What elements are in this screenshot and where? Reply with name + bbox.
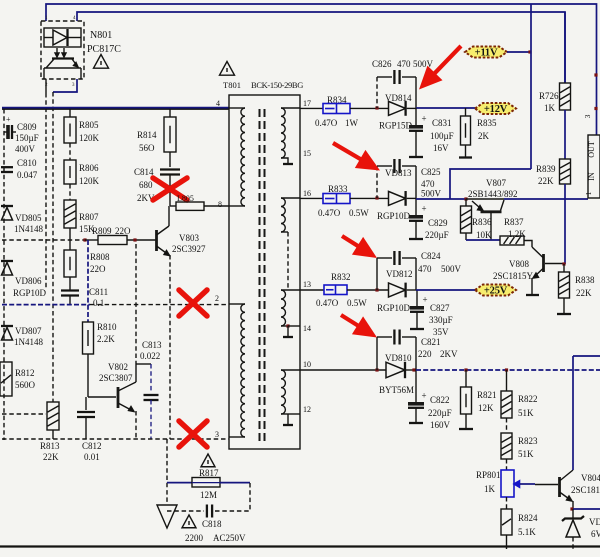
- wire C813 branch: [136, 363, 151, 365]
- svg-text:R823: R823: [518, 436, 538, 446]
- resistor R810: [83, 322, 94, 354]
- svg-text:OUT: OUT: [587, 141, 596, 158]
- svg-text:AC250V: AC250V: [213, 533, 246, 543]
- wire 16V blue rail right: [504, 198, 588, 200]
- svg-text:+12V: +12V: [484, 104, 508, 115]
- wire R809 base rail y240 dashed left part: [2, 239, 85, 241]
- capacitor C824: [377, 257, 392, 259]
- junction dot V808 base: [562, 262, 565, 265]
- svg-text:17: 17: [303, 99, 311, 108]
- svg-text:+11V: +11V: [475, 48, 498, 59]
- bottom border line: [0, 545, 600, 547]
- svg-text:VD807: VD807: [15, 326, 42, 336]
- junction dot V804 emitter: [570, 507, 573, 510]
- red arrow 4 at VD810: [341, 315, 359, 326]
- resistor R839: [560, 159, 571, 184]
- svg-text:2200: 2200: [185, 533, 204, 543]
- svg-text:C821: C821: [421, 337, 441, 347]
- svg-text:470: 470: [397, 59, 411, 69]
- svg-text:R838: R838: [575, 275, 595, 285]
- red X over C814 node: [153, 178, 187, 200]
- svg-text:R806: R806: [79, 163, 99, 173]
- wire 110V rail blue y370: [416, 369, 600, 371]
- svg-text:51K: 51K: [518, 408, 534, 418]
- svg-text:+: +: [423, 295, 428, 305]
- svg-text:R837: R837: [504, 217, 524, 227]
- wire pin17 line: [300, 107, 323, 109]
- svg-text:RGP10D: RGP10D: [377, 303, 411, 313]
- resistor R814: [169, 109, 171, 117]
- svg-text:+25V: +25V: [484, 286, 508, 297]
- svg-text:2SC181: 2SC181: [571, 485, 600, 495]
- svg-text:0.1: 0.1: [93, 298, 104, 308]
- warning triangle above T801: [220, 62, 235, 76]
- svg-text:T801: T801: [223, 80, 241, 90]
- resistor R837: [500, 236, 524, 245]
- svg-text:22K: 22K: [538, 176, 554, 186]
- svg-text:22O: 22O: [90, 264, 106, 274]
- diode VD805: [1, 205, 13, 207]
- svg-text:RGP10D: RGP10D: [13, 288, 47, 298]
- svg-text:R836: R836: [472, 217, 492, 227]
- svg-text:0.5W: 0.5W: [347, 298, 367, 308]
- wire +11V to bus: [507, 51, 531, 53]
- svg-text:12: 12: [303, 405, 311, 414]
- wire C824 left leg: [376, 258, 378, 290]
- svg-text:C829: C829: [428, 218, 448, 228]
- svg-text:R726: R726: [539, 91, 559, 101]
- svg-text:V802: V802: [108, 362, 128, 372]
- svg-text:5.1K: 5.1K: [518, 527, 536, 537]
- capacitor C818: [167, 510, 204, 512]
- wire R834 to VD814: [350, 107, 388, 109]
- svg-text:RGP10D: RGP10D: [377, 211, 411, 221]
- zener diode VD804 6V: [572, 509, 574, 518]
- transformer primary winding pins 2-3: [229, 303, 245, 305]
- svg-text:R824: R824: [518, 513, 538, 523]
- svg-text:500V: 500V: [421, 189, 442, 199]
- svg-text:51K: 51K: [518, 449, 534, 459]
- capacitor C811: [69, 277, 71, 290]
- resistor R823: [506, 418, 508, 433]
- wire C824 right leg: [415, 258, 417, 290]
- svg-text:220µF: 220µF: [425, 230, 449, 240]
- junction dot VD812 anode: [375, 288, 378, 291]
- svg-text:12M: 12M: [200, 490, 217, 500]
- resistor R813: [47, 402, 59, 430]
- svg-text:+: +: [422, 204, 427, 214]
- svg-text:R813: R813: [40, 441, 60, 451]
- wire +12V blue: [416, 107, 475, 109]
- svg-text:C811: C811: [89, 287, 108, 297]
- svg-text:470: 470: [421, 179, 435, 189]
- wire R837 to V808 collector: [524, 241, 532, 248]
- resistor R807: [69, 184, 71, 200]
- svg-text:PC817C: PC817C: [87, 44, 121, 55]
- svg-text:BCK-150-29BG: BCK-150-29BG: [251, 80, 303, 90]
- svg-text:C822: C822: [430, 395, 450, 405]
- potentiometer RP801: [506, 459, 508, 470]
- wire pin3 to R817 column: [166, 439, 168, 505]
- svg-text:1N4148: 1N4148: [14, 224, 43, 234]
- svg-text:4: 4: [216, 99, 220, 108]
- svg-text:+: +: [6, 115, 11, 124]
- junction dot VD810 cathode: [412, 368, 415, 371]
- svg-text:150µF: 150µF: [15, 133, 39, 143]
- svg-text:R810: R810: [97, 322, 117, 332]
- wire pin3 rail y439 dashed: [2, 438, 229, 440]
- svg-text:3: 3: [215, 430, 219, 439]
- svg-text:1.2K: 1.2K: [508, 229, 526, 239]
- capacitor C814: [169, 152, 171, 167]
- svg-text:2K: 2K: [478, 131, 490, 141]
- capacitor C812: [85, 397, 87, 410]
- svg-text:1W: 1W: [345, 118, 359, 128]
- wire R833 to VD813: [350, 197, 388, 199]
- svg-text:680: 680: [139, 180, 153, 190]
- wire V804 emitter blue: [573, 508, 600, 510]
- transformer secondary winding pins 13-14: [281, 289, 300, 291]
- svg-text:1: 1: [584, 191, 593, 195]
- svg-text:400V: 400V: [15, 144, 36, 154]
- junction dot +11V: [528, 50, 531, 53]
- svg-text:R839: R839: [536, 164, 556, 174]
- capacitor C810: [1, 166, 13, 168]
- wire V804 collector blue: [573, 355, 600, 357]
- svg-text:100µF: 100µF: [430, 131, 454, 141]
- wire dashed x136 V803 base to C813 node: [135, 244, 137, 364]
- diode VD807: [1, 325, 13, 327]
- svg-text:470: 470: [418, 264, 432, 274]
- wire pin10 line: [300, 369, 386, 371]
- svg-text:R808: R808: [90, 252, 110, 262]
- capacitor C809: [4, 131, 7, 133]
- transformer secondary winding pin16: [281, 197, 300, 199]
- svg-text:22K: 22K: [43, 452, 59, 462]
- optocoupler N801 PC817C: [41, 21, 84, 79]
- svg-text:R814: R814: [137, 130, 157, 140]
- earth ground symbol: [157, 505, 177, 528]
- junction dot VD813 anode: [375, 196, 378, 199]
- svg-text:15: 15: [303, 149, 311, 158]
- callout +25V: [475, 285, 516, 296]
- svg-text:0.47O: 0.47O: [315, 118, 338, 128]
- svg-text:22K: 22K: [576, 288, 592, 298]
- wire 16V rail blue y199: [416, 198, 466, 200]
- junction dot winding tap 14: [286, 324, 289, 327]
- transistor V808 2SC1815Y: [542, 254, 545, 272]
- svg-text:220: 220: [418, 349, 432, 359]
- wire R810 to V802 base: [87, 354, 89, 397]
- junction dot R821 top: [464, 368, 467, 371]
- svg-text:10K: 10K: [476, 230, 492, 240]
- svg-text:C812: C812: [82, 441, 102, 451]
- wire left hot rail dashed x4: [3, 109, 5, 440]
- svg-text:C824: C824: [421, 251, 441, 261]
- svg-text:13: 13: [303, 280, 311, 289]
- svg-text:C810: C810: [17, 158, 37, 168]
- junction dot connector lower: [594, 107, 597, 110]
- junction dot R809 right: [133, 238, 136, 241]
- svg-text:VD810: VD810: [385, 353, 412, 363]
- wire left dashed y414: [2, 413, 46, 415]
- capacitor C827: [416, 290, 418, 307]
- transistor V804 2SC1815: [535, 484, 558, 486]
- transformer T801 box: [229, 95, 300, 449]
- junction dot connector upper: [594, 73, 597, 76]
- svg-text:R809: R809: [92, 226, 112, 236]
- svg-text:6V: 6V: [591, 529, 600, 539]
- svg-text:VD812: VD812: [386, 269, 413, 279]
- svg-text:V807: V807: [486, 178, 506, 188]
- svg-text:0.47O: 0.47O: [316, 298, 339, 308]
- svg-text:R805: R805: [79, 120, 99, 130]
- svg-text:2SC1815Y: 2SC1815Y: [493, 271, 534, 281]
- capacitor C822: [415, 370, 417, 403]
- wire +25V blue: [416, 289, 475, 291]
- svg-text:120K: 120K: [79, 176, 100, 186]
- svg-text:35V: 35V: [433, 327, 449, 337]
- svg-text:C818: C818: [202, 519, 222, 529]
- connector XS out-in: [588, 135, 600, 198]
- resistor R838: [563, 264, 565, 272]
- warning triangle above R817: [201, 454, 215, 467]
- svg-text:C814: C814: [134, 167, 154, 177]
- svg-text:C827: C827: [430, 303, 450, 313]
- transistor V802 2SC3927 driver: [117, 387, 120, 408]
- transistor V803 2SC3927 switch: [155, 230, 158, 251]
- junction dot R822 top: [505, 368, 508, 371]
- red arrow 2 at VD813: [333, 143, 362, 160]
- svg-text:0.022: 0.022: [140, 351, 160, 361]
- svg-text:2.2K: 2.2K: [97, 334, 115, 344]
- wire top inner blue rail: [77, 12, 565, 83]
- svg-text:C813: C813: [142, 340, 162, 350]
- wire R832 to VD812: [347, 289, 388, 291]
- wire blue bus x531: [530, 4, 532, 169]
- svg-text:3: 3: [583, 114, 592, 118]
- transistor V807 2SB1443 regulator: [466, 198, 504, 200]
- svg-text:2: 2: [215, 294, 219, 303]
- wire R839 down: [564, 184, 566, 264]
- resistor R822: [506, 370, 508, 391]
- wire C826 right leg: [415, 77, 417, 108]
- wire top outer blue rail: [46, 4, 597, 135]
- capacitor C831: [415, 108, 417, 126]
- resistor R836: [465, 199, 467, 206]
- junction dot VD810 anode: [375, 368, 378, 371]
- svg-text:0.01: 0.01: [84, 452, 100, 462]
- resistor R805: [69, 109, 71, 117]
- svg-text:VD806: VD806: [15, 276, 42, 286]
- svg-text:C825: C825: [421, 167, 441, 177]
- svg-text:330µF: 330µF: [429, 315, 453, 325]
- wire C818 right leg: [249, 483, 251, 511]
- svg-text:8: 8: [218, 200, 222, 209]
- svg-text:RGP15D: RGP15D: [379, 121, 413, 131]
- svg-text:C831: C831: [432, 118, 452, 128]
- wire main rail pin4 y108: [2, 108, 229, 110]
- svg-text:R835: R835: [477, 118, 497, 128]
- svg-text:R812: R812: [15, 368, 35, 378]
- wire pin16 line: [300, 197, 323, 199]
- svg-text:56O: 56O: [139, 143, 155, 153]
- wire pin2 rail y305 dashed: [90, 304, 229, 306]
- inductor L805: [170, 205, 176, 207]
- wire opto pin2 column: [45, 79, 47, 93]
- svg-text:R833: R833: [328, 184, 348, 194]
- transformer secondary winding pins 10-12: [281, 369, 300, 371]
- wire opto pin3 L-bend: [53, 79, 77, 92]
- svg-text:C809: C809: [17, 122, 37, 132]
- svg-text:0.47O: 0.47O: [318, 208, 341, 218]
- svg-text:VD8: VD8: [589, 517, 600, 527]
- svg-text:C826: C826: [372, 59, 392, 69]
- svg-text:10: 10: [303, 360, 311, 369]
- capacitor C829: [415, 198, 417, 216]
- callout +11V: [465, 47, 507, 58]
- capacitor C813: [150, 364, 152, 392]
- svg-text:RP801: RP801: [476, 470, 501, 480]
- junction dot R836 top: [464, 197, 467, 200]
- svg-text:500V: 500V: [441, 264, 462, 274]
- wire pin13 line: [300, 289, 324, 291]
- svg-text:R822: R822: [518, 394, 538, 404]
- svg-text:220µF: 220µF: [428, 408, 452, 418]
- wire pin2 rail y305 blue part: [2, 304, 90, 306]
- resistor R726: [564, 12, 566, 83]
- wire R726 to R839: [564, 110, 566, 159]
- resistor R824: [506, 497, 508, 509]
- resistor R812: [0, 362, 12, 396]
- svg-text:560O: 560O: [15, 380, 36, 390]
- svg-text:BYT56M: BYT56M: [379, 385, 414, 395]
- capacitor C825: [377, 165, 392, 167]
- red arrow 1 at VD814: [434, 46, 461, 74]
- svg-text:R832: R832: [331, 272, 351, 282]
- svg-text:R817: R817: [199, 468, 219, 478]
- svg-text:+: +: [422, 391, 427, 401]
- svg-text:2SC3927: 2SC3927: [172, 244, 206, 254]
- wire C826 left leg: [376, 77, 378, 108]
- wire C825 right leg: [415, 166, 417, 198]
- svg-text:160V: 160V: [430, 420, 451, 430]
- svg-text:12K: 12K: [478, 403, 494, 413]
- wire C825 left leg: [376, 166, 378, 198]
- svg-text:0.047: 0.047: [17, 170, 38, 180]
- svg-text:N801: N801: [90, 30, 112, 41]
- svg-text:14: 14: [303, 324, 311, 333]
- svg-text:1N4148: 1N4148: [14, 337, 43, 347]
- wire R836 bottom blue: [465, 233, 467, 240]
- warning triangle near earth: [182, 515, 196, 528]
- svg-text:1K: 1K: [544, 103, 556, 113]
- wire blue column x88: [87, 240, 89, 322]
- wire C821 left leg: [376, 337, 378, 370]
- svg-text:2SC3807: 2SC3807: [99, 373, 133, 383]
- svg-text:120K: 120K: [79, 133, 100, 143]
- warning triangle near N801: [94, 55, 109, 69]
- svg-text:V804: V804: [581, 473, 600, 483]
- transformer primary winding pins 4-8: [229, 107, 245, 109]
- svg-text:22O: 22O: [115, 226, 131, 236]
- capacitor C821: [377, 336, 392, 338]
- svg-text:2SB1443/892: 2SB1443/892: [468, 189, 518, 199]
- svg-text:IN: IN: [587, 172, 596, 181]
- svg-text:2KV: 2KV: [440, 349, 458, 359]
- red X on pin2 line: [179, 290, 207, 316]
- resistor R808: [69, 240, 71, 250]
- resistor R821: [465, 370, 467, 387]
- callout +12V: [475, 103, 516, 114]
- junction dot VD814 anode: [375, 106, 378, 109]
- wire C821 right leg: [415, 337, 417, 370]
- junction dot R809 left: [83, 238, 86, 241]
- svg-text:16V: 16V: [433, 143, 449, 153]
- svg-text:VD805: VD805: [15, 213, 42, 223]
- resistor R806: [69, 143, 71, 160]
- svg-text:R807: R807: [79, 212, 99, 222]
- transformer core: [259, 109, 261, 443]
- svg-text:V803: V803: [179, 233, 199, 243]
- resistor R835: [465, 108, 467, 116]
- red X on pin3 line: [179, 421, 207, 447]
- svg-text:0.5W: 0.5W: [349, 208, 369, 218]
- svg-text:R821: R821: [477, 390, 497, 400]
- svg-text:L805: L805: [177, 194, 194, 203]
- red arrow 3 at VD812: [342, 236, 359, 247]
- svg-text:16: 16: [303, 189, 311, 198]
- svg-text:500V: 500V: [413, 59, 434, 69]
- wire blue up-and-over to bus x531: [450, 169, 531, 199]
- diode VD806: [1, 260, 13, 262]
- svg-text:V808: V808: [509, 259, 529, 269]
- svg-text:1K: 1K: [484, 484, 496, 494]
- svg-text:+: +: [422, 114, 427, 124]
- transformer secondary winding pins 17-15: [281, 107, 300, 109]
